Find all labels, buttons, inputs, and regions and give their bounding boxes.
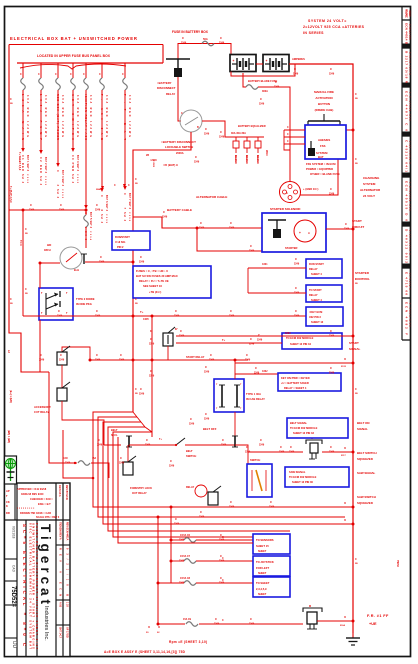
title block approvals xyxy=(6,485,68,519)
svg-text:CK: CK xyxy=(6,500,10,504)
battery BT2 xyxy=(263,55,289,72)
svg-text:SHEET 12 PIN 34: SHEET 12 PIN 34 xyxy=(290,342,311,346)
wire battery lower link xyxy=(231,65,295,77)
label system 24 volts xyxy=(303,19,365,35)
bus brace xyxy=(20,64,126,69)
wire starter feed 2 xyxy=(197,228,262,251)
fuse panel left rail xyxy=(9,45,49,373)
labels right start signal xyxy=(349,341,361,351)
svg-text:R 81/30 7122 B: R 81/30 7122 B xyxy=(408,52,410,76)
key on box U10 xyxy=(278,373,341,391)
svg-text:0 D 51554 NCE: 0 D 51554 NCE xyxy=(408,182,410,212)
wires S1 to boxes xyxy=(176,335,353,337)
svg-text:STARTER: STARTER xyxy=(285,246,298,250)
svg-text:TYPE 1 30A: TYPE 1 30A xyxy=(246,392,261,396)
svg-text:=: = xyxy=(308,231,310,235)
svg-text:C: C xyxy=(10,98,12,101)
svg-text:C: C xyxy=(175,309,177,313)
svg-text:REV BY ECN: REV BY ECN xyxy=(65,485,68,500)
key line y360 xyxy=(90,359,248,361)
svg-text:ALTERNATOR CABLE: ALTERNATOR CABLE xyxy=(196,195,227,199)
svg-text:2249: 2249 xyxy=(229,315,235,318)
svg-text:C: C xyxy=(40,353,42,357)
title block xyxy=(5,483,71,657)
diode D2 xyxy=(244,137,250,164)
svg-text:C: C xyxy=(205,127,207,131)
disconnect bar xyxy=(166,59,190,77)
svg-text:2249: 2249 xyxy=(181,42,187,45)
svg-text:2249: 2249 xyxy=(199,516,205,519)
svg-text:SAW SIGNAL: SAW SIGNAL xyxy=(357,471,376,475)
labels belt on signal xyxy=(357,421,369,431)
svg-text:+U = BATTERY SAVER: +U = BATTERY SAVER xyxy=(281,381,309,385)
svg-text:C: C xyxy=(330,329,332,333)
svg-text:2249: 2249 xyxy=(249,250,255,253)
svg-text:+TB (41=): +TB (41=) xyxy=(149,290,161,294)
svg-text:BELT OFF: BELT OFF xyxy=(203,427,217,431)
svg-text:2249: 2249 xyxy=(229,506,235,509)
svg-text:C105: C105 xyxy=(105,214,107,224)
svg-text:C: C xyxy=(220,576,222,580)
svg-text:2249: 2249 xyxy=(219,539,225,542)
wire to saw switch box xyxy=(235,445,248,464)
vertical rail x49 xyxy=(49,372,60,463)
svg-text:2249: 2249 xyxy=(259,444,265,447)
svg-text:TO SENSORS: TO SENSORS xyxy=(256,538,274,542)
svg-text:C: C xyxy=(114,184,116,187)
svg-text:2249: 2249 xyxy=(219,42,225,45)
wire pressure switch row xyxy=(248,446,355,457)
svg-text:AP: AP xyxy=(6,489,10,493)
saw signal box U13 xyxy=(285,467,349,487)
wire to U5 xyxy=(248,267,306,269)
svg-text:C: C xyxy=(250,244,252,248)
svg-text:C: C xyxy=(294,67,296,71)
svg-text:9117: 9117 xyxy=(341,455,347,457)
svg-text:30A 30A 30A: 30A 30A 30A xyxy=(231,132,246,135)
svg-text:C: C xyxy=(355,158,357,161)
fuse F8 xyxy=(202,41,214,46)
svg-text:SHEET 12 PIN 30: SHEET 12 PIN 30 xyxy=(292,480,313,484)
svg-text:ELECTRICAL BOX BAT + UNSWIT: ELECTRICAL BOX BAT + UNSWITCHED POWER xyxy=(10,36,138,41)
svg-text:2249: 2249 xyxy=(245,359,251,362)
wire battery fuse xyxy=(178,44,231,60)
title block left column xyxy=(10,526,17,649)
svg-text:AMPERES: AMPERES xyxy=(292,57,305,61)
bottom fuse row 2 xyxy=(171,555,253,563)
svg-text:2B49 C: 2B49 C xyxy=(234,155,237,163)
svg-text:C: C xyxy=(195,155,197,159)
label: battery disconnect lockable switch xyxy=(161,140,196,167)
wire drop5 to fuse xyxy=(85,210,87,215)
fuse F7 drop xyxy=(122,63,131,222)
svg-text:15A C9: 15A C9 xyxy=(183,618,192,621)
label: battery disconnect relay xyxy=(157,81,176,96)
svg-text:Rpm =E (SHEET 3,10): Rpm =E (SHEET 3,10) xyxy=(169,640,207,644)
svg-text:C: C xyxy=(181,112,183,115)
svg-text:C104: C104 xyxy=(89,231,92,241)
svg-text:30A RED 12AWG: 30A RED 12AWG xyxy=(61,95,64,137)
svg-text:60 5174 E: 60 5174 E xyxy=(408,273,410,291)
svg-text:C: C xyxy=(280,445,282,449)
svg-text:C: C xyxy=(70,73,72,76)
svg-text:C: C xyxy=(260,97,262,101)
svg-text:C233: C233 xyxy=(285,333,291,335)
svg-text:START: START xyxy=(352,219,362,223)
svg-text:2249: 2249 xyxy=(97,444,103,447)
nest wire e xyxy=(113,432,253,537)
svg-text:2249: 2249 xyxy=(149,343,155,346)
fuse row y463 xyxy=(60,457,109,478)
drop6 extension xyxy=(101,150,103,183)
svg-text:BAT 4 SHT 3: BAT 4 SHT 3 xyxy=(76,155,79,172)
svg-text:2249: 2249 xyxy=(29,209,35,212)
svg-text:C2 RED: C2 RED xyxy=(39,157,43,173)
svg-text:RELAY: RELAY xyxy=(309,267,318,271)
svg-text:START RELAY: START RELAY xyxy=(186,355,205,359)
svg-text:C: C xyxy=(20,73,22,76)
run start box U5 xyxy=(306,259,342,278)
labels belt switch squeezed xyxy=(357,451,377,461)
svg-text:REV A ECN: REV A ECN xyxy=(59,548,62,596)
svg-text:2249: 2249 xyxy=(204,133,210,136)
svg-text:SH 3: SH 3 xyxy=(123,212,126,222)
svg-text:BELT SIGNAL: BELT SIGNAL xyxy=(290,421,308,425)
svg-text:C: C xyxy=(250,337,252,341)
svg-text:BAT: BAT xyxy=(318,155,324,159)
svg-text:2000A: 2000A xyxy=(176,151,184,155)
svg-text:2249: 2249 xyxy=(189,423,195,426)
wires into FSS box xyxy=(284,127,305,150)
svg-text:T+ SHEET 3,5,9: T+ SHEET 3,5,9 xyxy=(18,152,21,171)
svg-text:C: C xyxy=(25,228,27,231)
svg-text:2B49 C: 2B49 C xyxy=(256,155,259,163)
label type 2 diode xyxy=(76,297,95,306)
sheet box B1 xyxy=(253,534,290,554)
svg-text:C: C xyxy=(30,203,32,207)
svg-text:B: B xyxy=(197,126,199,129)
svg-text:KEY ON PWR = KEYED: KEY ON PWR = KEYED xyxy=(281,376,310,380)
svg-text:2249: 2249 xyxy=(289,451,295,454)
svg-text:LOCKABLE SWITCH: LOCKABLE SWITCH xyxy=(165,145,193,149)
label manual fire activation xyxy=(314,90,334,112)
svg-text:C: C xyxy=(180,576,182,580)
belt signal box U12 xyxy=(287,418,348,438)
svg-text:C: C xyxy=(330,366,332,370)
svg-text:C231: C231 xyxy=(262,264,268,266)
svg-text:C: C xyxy=(150,337,152,341)
svg-text:300A: 300A xyxy=(262,90,268,93)
svg-text:C: C xyxy=(140,387,142,391)
nest wire a xyxy=(93,412,353,507)
fuse F1 drop xyxy=(20,63,29,184)
svg-text:2249: 2249 xyxy=(179,335,185,338)
svg-text:OUT RELAY: OUT RELAY xyxy=(132,491,147,495)
svg-text:T+: T+ xyxy=(222,338,226,342)
svg-text:2249: 2249 xyxy=(344,228,350,231)
svg-text:S=CL: S=CL xyxy=(111,433,118,437)
svg-text:C: C xyxy=(182,36,184,40)
svg-text:Industries Inc.: Industries Inc. xyxy=(43,606,49,641)
svg-text:C: C xyxy=(180,329,182,333)
box U8 wide xyxy=(282,333,342,349)
svg-text:REV 1A EC: REV 1A EC xyxy=(404,9,408,19)
svg-text:DD: DD xyxy=(11,641,17,649)
svg-text:E 4715 06: E 4715 06 xyxy=(404,272,408,295)
svg-text:C: C xyxy=(210,353,212,357)
svg-text:30A RED 12AWG: 30A RED 12AWG xyxy=(128,95,131,137)
svg-text:TO JOYSTICK: TO JOYSTICK xyxy=(256,560,274,564)
svg-text:2249: 2249 xyxy=(221,444,227,447)
svg-text:1BFH: 1BFH xyxy=(44,249,51,252)
svg-text:C: C xyxy=(355,388,357,391)
svg-text:BELT ON: BELT ON xyxy=(357,421,369,425)
svg-text:B 41544 NCE: B 41544 NCE xyxy=(408,24,410,41)
svg-text:C: C xyxy=(290,445,292,449)
svg-text:(INSIDE CAB): (INSIDE CAB) xyxy=(315,108,334,112)
connector X1 xyxy=(303,605,322,629)
svg-text:2249: 2249 xyxy=(254,372,260,375)
svg-text:=KEY ECM: =KEY ECM xyxy=(309,310,322,314)
svg-text:K: K xyxy=(6,504,8,508)
svg-text:2249: 2249 xyxy=(293,73,299,76)
svg-text:C: C xyxy=(220,36,222,40)
svg-text:C: C xyxy=(215,617,217,621)
wire battery blade fuse xyxy=(243,73,246,87)
title block wire xyxy=(63,430,93,478)
svg-text:C4 PWR: C4 PWR xyxy=(71,155,75,171)
svg-text:2249: 2249 xyxy=(149,375,155,378)
svg-text:2249: 2249 xyxy=(179,539,185,542)
fuse F2 drop xyxy=(38,63,47,186)
wire left drop vertical x23 xyxy=(22,210,24,316)
svg-text:BAT 7 SHT 3: BAT 7 SHT 3 xyxy=(128,193,131,210)
wire y363 xyxy=(235,362,353,364)
svg-text:BAT 3 SHT 3: BAT 3 SHT 3 xyxy=(61,170,64,187)
title block right cells xyxy=(59,522,69,639)
svg-text:C: C xyxy=(222,619,224,622)
svg-text:2249: 2249 xyxy=(219,560,225,563)
svg-text:C: C xyxy=(255,366,257,370)
svg-text:U: U xyxy=(158,625,160,629)
svg-text:C: C xyxy=(120,353,122,357)
svg-text:SCALE NTS = REV 0: SCALE NTS = REV 0 xyxy=(36,516,60,519)
disconnect aux labels xyxy=(96,154,157,191)
rail labels xyxy=(10,93,358,565)
label frame ground xyxy=(367,614,389,626)
svg-text:SH 3: SH 3 xyxy=(56,189,59,199)
svg-text:24 VOLT: 24 VOLT xyxy=(363,194,375,198)
bottom fuse row 1 xyxy=(171,534,253,542)
svg-text:C: C xyxy=(295,257,297,261)
svg-text:2249: 2249 xyxy=(95,359,101,362)
svg-text:2249: 2249 xyxy=(294,315,300,318)
svg-text:SYSTEM 24 VOLT=: SYSTEM 24 VOLT= xyxy=(308,19,347,23)
svg-text:+: + xyxy=(233,59,235,63)
label charging system xyxy=(360,176,381,198)
svg-text:2249: 2249 xyxy=(257,339,263,342)
wire HRD to rail xyxy=(85,261,133,263)
svg-text:U: U xyxy=(344,518,346,522)
svg-text:SYSTEM: SYSTEM xyxy=(363,182,376,186)
bottom fuse row 3 xyxy=(158,577,253,585)
svg-text:CHECKED = D.M =: CHECKED = D.M = xyxy=(30,497,53,501)
svg-text:2249: 2249 xyxy=(145,444,151,447)
svg-text:TO ECM X02 MODULE: TO ECM X02 MODULE xyxy=(290,426,318,430)
svg-text:IGNITION RELAY / ACC: IGNITION RELAY / ACC xyxy=(84,94,88,140)
svg-text:30A RED 12AWG: 30A RED 12AWG xyxy=(105,95,108,137)
svg-text:BELT: BELT xyxy=(186,449,193,453)
svg-text:U: U xyxy=(344,615,346,619)
svg-text:SWITCH: SWITCH xyxy=(186,454,196,458)
svg-text:C: C xyxy=(355,278,357,281)
belt off contact xyxy=(185,427,238,458)
svg-text:C: C xyxy=(96,309,98,313)
svg-text:2249: 2249 xyxy=(162,216,168,219)
alternator G1 xyxy=(280,182,301,203)
svg-text:BAT 1 SHT 3: BAT 1 SHT 3 xyxy=(26,155,29,172)
svg-text:PIN 2: PIN 2 xyxy=(117,245,124,249)
svg-text:FUSE IN BATTERY BOX: FUSE IN BATTERY BOX xyxy=(172,30,209,34)
svg-text:C: C xyxy=(222,438,224,442)
svg-text:2,3,4,5,9: 2,3,4,5,9 xyxy=(256,587,267,591)
svg-text:IN ONE PKG: IN ONE PKG xyxy=(76,302,92,306)
svg-text:2249: 2249 xyxy=(174,315,180,318)
bottom fuse row 4 xyxy=(158,618,303,626)
svg-text:2249: 2249 xyxy=(169,465,175,468)
svg-text:30A RED 12AWG: 30A RED 12AWG xyxy=(26,95,29,137)
blue box relay small U2 xyxy=(112,231,150,250)
svg-text:U: U xyxy=(344,446,346,450)
svg-text:+ (GND 10=): + (GND 10=) xyxy=(303,187,318,191)
svg-text:C: C xyxy=(25,288,27,291)
svg-text:U: U xyxy=(344,357,346,361)
svg-text:2B49: 2B49 xyxy=(96,188,102,191)
svg-text:SWITCH: SWITCH xyxy=(250,458,260,462)
svg-text:ENG = B.T: ENG = B.T xyxy=(38,502,51,506)
svg-text:BUTTON: BUTTON xyxy=(318,102,330,106)
svg-text:2B49 C: 2B49 C xyxy=(245,155,248,163)
svg-text:2249: 2249 xyxy=(194,161,200,164)
svg-text:C: C xyxy=(120,456,122,460)
svg-text:C: C xyxy=(205,412,207,416)
svg-text:U: U xyxy=(344,501,346,505)
fuse F3 drop xyxy=(55,63,64,199)
svg-text:C: C xyxy=(140,255,142,259)
svg-text:C: C xyxy=(250,617,252,621)
svg-text:C: C xyxy=(355,93,357,96)
svg-text:FUSES RELAYS DISCONNECT 03/21/: FUSES RELAYS DISCONNECT 03/21/18 SHEET 1… xyxy=(35,523,39,650)
start switch S1 xyxy=(150,327,178,346)
svg-text:50A: 50A xyxy=(203,37,208,41)
svg-text:03/21/18: 03/21/18 xyxy=(12,526,16,539)
svg-text:2249: 2249 xyxy=(99,261,105,264)
svg-text:BAT 5 SHT 3: BAT 5 SHT 3 xyxy=(89,212,92,229)
svg-text:SH 3: SH 3 xyxy=(100,214,103,224)
svg-text:2249: 2249 xyxy=(294,292,300,295)
svg-text:2249: 2249 xyxy=(179,560,185,563)
svg-text:CE A1 VER: CE A1 VER xyxy=(408,10,411,17)
svg-text:SHEET: SHEET xyxy=(258,593,267,596)
AHES FSS box U9 xyxy=(305,125,346,159)
battery disconnect switch xyxy=(180,110,202,132)
svg-text:2249: 2249 xyxy=(204,371,210,374)
fuse panel box right edge xyxy=(162,45,164,64)
svg-text:C: C xyxy=(230,221,232,225)
svg-text:30A RED 12AWG: 30A RED 12AWG xyxy=(89,95,92,137)
svg-text:+: + xyxy=(299,231,301,235)
svg-text:2249: 2249 xyxy=(274,86,280,89)
svg-text:ELH: ELH xyxy=(74,269,79,272)
fuse bus xyxy=(17,62,163,64)
svg-text:2249: 2249 xyxy=(65,462,71,465)
svg-text:C: C xyxy=(295,309,297,313)
svg-text:BAT SU SW FUSES 30 AMP MAX: BAT SU SW FUSES 30 AMP MAX xyxy=(136,274,178,278)
svg-text:SH 3: SH 3 xyxy=(71,174,74,184)
svg-text:30A RED 12AWG: 30A RED 12AWG xyxy=(44,95,47,137)
svg-text:SHEET 4: SHEET 4 xyxy=(311,272,322,276)
svg-text:2249: 2249 xyxy=(119,359,125,362)
belt lever switch xyxy=(129,438,185,446)
svg-text:2249: 2249 xyxy=(329,372,335,375)
svg-text:C: C xyxy=(96,203,98,207)
svg-text:SHEET 12 PIN 33: SHEET 12 PIN 33 xyxy=(293,431,314,435)
svg-text:1 18: 1 18 xyxy=(66,602,69,607)
svg-text:APPROVED = R.B 03/18: APPROVED = R.B 03/18 xyxy=(17,487,47,491)
svg-text:C: C xyxy=(180,554,182,558)
svg-text:2249: 2249 xyxy=(329,73,335,76)
svg-text:C232: C232 xyxy=(262,371,268,373)
svg-text:C: C xyxy=(330,187,332,191)
svg-text:C: C xyxy=(60,203,62,207)
svg-text:DISCONNECT: DISCONNECT xyxy=(157,86,176,90)
green tree logo xyxy=(5,456,17,484)
title block red titles xyxy=(22,523,39,650)
svg-text:F.R. #1 FF: F.R. #1 FF xyxy=(367,614,389,618)
svg-text:CONTROL: CONTROL xyxy=(355,277,370,281)
svg-text:15A C7: 15A C7 xyxy=(182,555,191,558)
svg-text:C: C xyxy=(260,438,262,442)
svg-text:SIGNAL: SIGNAL xyxy=(349,347,361,351)
fire button xyxy=(308,114,340,125)
svg-text:C: C xyxy=(230,500,232,504)
svg-text:T+: T+ xyxy=(140,310,144,314)
svg-text:SQUEEZED: SQUEEZED xyxy=(357,501,373,505)
svg-text:C: C xyxy=(220,533,222,537)
svg-text:9133: 9133 xyxy=(341,366,347,368)
svg-text:2B49: 2B49 xyxy=(265,150,268,156)
svg-text:C: C xyxy=(246,353,248,357)
svg-text:RELAY: RELAY xyxy=(309,293,318,297)
svg-text:2249: 2249 xyxy=(279,451,285,454)
svg-text:2249: 2249 xyxy=(269,506,275,509)
svg-text:F 2884 NCE: F 2884 NCE xyxy=(408,303,410,328)
svg-text:2249: 2249 xyxy=(119,462,125,465)
svg-text:CUT RELAY: CUT RELAY xyxy=(34,410,49,414)
svg-text:C: C xyxy=(220,130,222,134)
wire T+ line y316 xyxy=(23,315,307,317)
svg-text:AHES/ES: AHES/ES xyxy=(318,138,330,142)
svg-text:SHEET 4: SHEET 4 xyxy=(311,298,322,302)
svg-text:2249: 2249 xyxy=(259,103,265,106)
svg-text:2249: 2249 xyxy=(249,623,255,626)
svg-text:C: C xyxy=(295,286,297,290)
box U6 xyxy=(306,285,342,302)
svg-text:SEE SHEET 16: SEE SHEET 16 xyxy=(143,284,162,288)
svg-text:FORESTRY LOCK: FORESTRY LOCK xyxy=(130,486,152,490)
svg-text:TYPE 2 DIODE: TYPE 2 DIODE xyxy=(76,297,95,301)
forestry relay K3 xyxy=(123,445,152,495)
